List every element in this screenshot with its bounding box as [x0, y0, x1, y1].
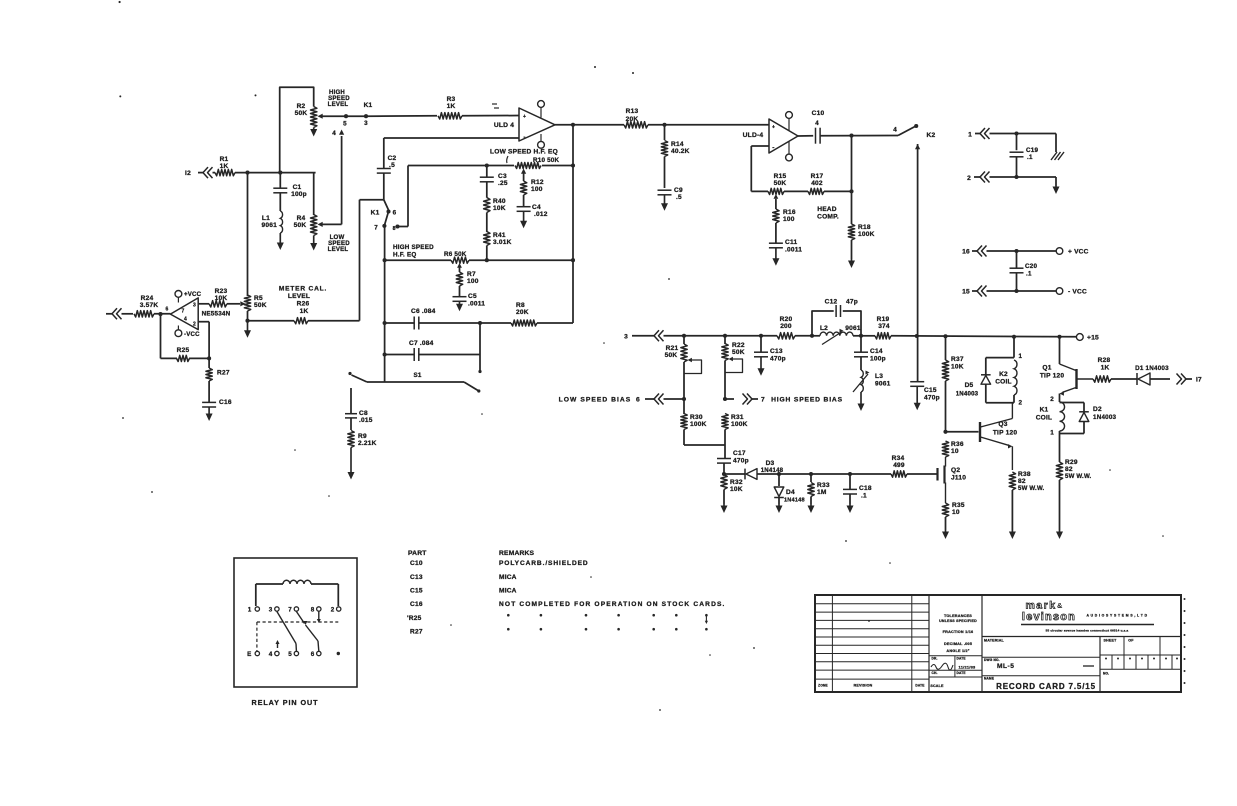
- resistor R17: [808, 188, 824, 194]
- svg-text:R33: R33: [817, 482, 830, 489]
- supply circle +VCC U3: [175, 291, 182, 298]
- svg-text:PART: PART: [408, 550, 427, 557]
- svg-text:3.57K: 3.57K: [140, 302, 159, 309]
- svg-text:C3: C3: [498, 173, 507, 180]
- svg-text:1: 1: [1050, 430, 1054, 437]
- svg-text:374: 374: [878, 323, 890, 330]
- node Q3 base: [943, 430, 947, 434]
- node C20 top: [1014, 249, 1018, 253]
- revision table rules: [815, 603, 929, 605]
- svg-text:C17: C17: [733, 450, 746, 457]
- transistor Q2 J110 (JFET): [936, 468, 938, 481]
- transistor Q1 TIP120: [1059, 337, 1061, 364]
- ground below C16: [208, 407, 210, 416]
- svg-text:C2: C2: [388, 155, 397, 162]
- svg-text:SCALE: SCALE: [930, 684, 944, 688]
- svg-text:402: 402: [811, 180, 823, 187]
- op-amp U1 ULD-4: [519, 108, 555, 141]
- ground below C5: [459, 301, 461, 306]
- svg-text:L1: L1: [262, 215, 270, 222]
- capacitor C12 branch: [812, 311, 834, 336]
- svg-text:A U D I O S Y S T E M S , L T: A U D I O S Y S T E M S , L T D: [1087, 614, 1148, 618]
- svg-text:I2: I2: [185, 170, 191, 177]
- svg-text:.1: .1: [1026, 271, 1032, 278]
- svg-text:R10 50K: R10 50K: [533, 157, 560, 164]
- svg-text:DWG NO.: DWG NO.: [984, 658, 1000, 662]
- svg-text:COIL: COIL: [995, 379, 1012, 386]
- svg-text:7: 7: [374, 225, 378, 232]
- wiper of R10 to R12: [521, 169, 526, 174]
- svg-text:K1: K1: [1040, 407, 1049, 414]
- resistor R26: [294, 318, 308, 324]
- ground below C13: [760, 357, 762, 371]
- svg-text:D4: D4: [786, 489, 795, 496]
- svg-text:NE5534N: NE5534N: [202, 311, 231, 318]
- ground below C18: [849, 504, 851, 508]
- svg-text:499: 499: [893, 462, 905, 469]
- svg-text:R29: R29: [1065, 459, 1078, 466]
- diode D5 1N4003: [985, 358, 987, 375]
- parts list dot rows: [507, 614, 510, 617]
- capacitor C17: [717, 458, 731, 460]
- ground below R38: [1011, 530, 1013, 534]
- svg-text:20K: 20K: [626, 116, 639, 123]
- wire C6/R8 line: [385, 322, 415, 324]
- wire U1 inverting input: [384, 137, 519, 139]
- svg-text:C16: C16: [219, 399, 232, 406]
- op-amp U3 NE5534 (points left): [170, 298, 198, 330]
- resistor R28: [1093, 376, 1111, 382]
- node C18 branch: [848, 472, 852, 476]
- svg-text:1K: 1K: [300, 308, 309, 315]
- svg-text:1: 1: [968, 132, 972, 139]
- svg-text:DR.: DR.: [932, 657, 938, 661]
- capacitor C5: [453, 296, 467, 298]
- node L2 right / C14 branch: [859, 334, 863, 338]
- wiper of R2: [318, 114, 323, 119]
- resistor R30: [683, 399, 685, 414]
- svg-text:LEVEL: LEVEL: [288, 293, 310, 300]
- svg-text:D1 1N4003: D1 1N4003: [1135, 365, 1169, 372]
- svg-text:9061: 9061: [845, 325, 861, 332]
- svg-text:5W W.W.: 5W W.W.: [1065, 473, 1092, 480]
- ground below L3: [860, 392, 862, 406]
- svg-text:R25: R25: [177, 347, 190, 354]
- resistor R32: [721, 475, 727, 490]
- wire R26 meter cal line: [248, 320, 295, 322]
- node R14 branch: [662, 123, 666, 127]
- node R33 branch: [809, 472, 813, 476]
- svg-text:470p: 470p: [733, 458, 749, 465]
- svg-text:9061: 9061: [262, 222, 278, 229]
- svg-text:R5: R5: [254, 295, 263, 302]
- resistor R13: [624, 122, 648, 128]
- svg-text:R19: R19: [877, 316, 890, 323]
- node C19 top: [1014, 131, 1018, 135]
- node A junction R1/R5: [245, 171, 249, 175]
- capacitor C2: [383, 138, 385, 168]
- svg-text:47p: 47p: [846, 299, 858, 306]
- svg-text:R32: R32: [730, 479, 743, 486]
- svg-text:470p: 470p: [924, 395, 940, 402]
- resistor R20: [777, 333, 795, 339]
- svg-text:R40: R40: [493, 198, 506, 205]
- title block outer border: [815, 595, 1181, 692]
- svg-text:5: 5: [343, 121, 347, 128]
- svg-text:OF: OF: [1128, 639, 1134, 643]
- ground below D4: [778, 504, 780, 508]
- svg-text:Q2: Q2: [951, 467, 960, 474]
- capacitor C15: [910, 381, 924, 383]
- svg-text:.25: .25: [498, 180, 508, 187]
- resistor R14: [664, 125, 666, 140]
- svg-text:R30: R30: [690, 414, 703, 421]
- svg-text:Q1: Q1: [1042, 365, 1051, 372]
- svg-text:.012: .012: [534, 211, 548, 218]
- node R27 top: [207, 356, 211, 360]
- resistor R9: [348, 431, 354, 448]
- svg-text:100p: 100p: [870, 356, 886, 363]
- wire contact3 to R3: [366, 115, 437, 117]
- wire R22 to node 7: [724, 361, 726, 400]
- svg-text:100K: 100K: [690, 421, 707, 428]
- svg-text:COIL: COIL: [1036, 415, 1053, 422]
- svg-text:R3: R3: [447, 96, 456, 103]
- svg-text:470p: 470p: [770, 356, 786, 363]
- svg-text:REVISION: REVISION: [854, 684, 873, 688]
- drawing number ML-5: [982, 656, 1100, 658]
- node C7 junction: [478, 321, 482, 325]
- svg-text:82: 82: [1018, 478, 1026, 485]
- switch K1 contacts 5-3: [344, 114, 348, 118]
- svg-text:I7: I7: [1196, 377, 1202, 384]
- svg-text:100: 100: [531, 186, 543, 193]
- resistor R8: [511, 320, 537, 326]
- resistor R27: [208, 358, 210, 368]
- svg-text:55 circular avenue hamden conn: 55 circular avenue hamden connecticut 06…: [1046, 629, 1129, 633]
- svg-text:10K: 10K: [493, 205, 506, 212]
- ground below R2: [313, 128, 315, 132]
- svg-text:- VCC: - VCC: [1068, 289, 1087, 296]
- svg-text:6: 6: [166, 307, 169, 313]
- svg-text:TOLERANCES: TOLERANCES: [944, 614, 972, 618]
- svg-text:DECIMAL .005: DECIMAL .005: [944, 642, 972, 646]
- wiper of R15 to R16: [774, 194, 779, 199]
- ground pin2: [1055, 177, 1057, 186]
- svg-text:ANGLE 1/2°: ANGLE 1/2°: [946, 649, 969, 653]
- ground below L1: [279, 233, 281, 245]
- svg-text:R41: R41: [493, 232, 506, 239]
- svg-text:10K: 10K: [951, 364, 964, 371]
- svg-text:3: 3: [364, 120, 368, 127]
- resistor R24: [122, 313, 134, 315]
- wire Q1 emitter to K1 coil: [1059, 394, 1061, 403]
- svg-text:+15: +15: [1087, 335, 1099, 342]
- svg-text:RECORD CARD 7.5/15: RECORD CARD 7.5/15: [996, 682, 1096, 691]
- resistor R15 (pot): [768, 188, 784, 194]
- wire U1 output: [555, 124, 624, 126]
- svg-text:C14: C14: [870, 348, 883, 355]
- svg-text:100K: 100K: [731, 421, 748, 428]
- svg-text:.5: .5: [389, 162, 395, 169]
- wiper arrow into R5: [240, 301, 245, 306]
- svg-text:7: 7: [288, 607, 292, 614]
- svg-text:mark: mark: [1025, 600, 1056, 612]
- ground below R9: [350, 448, 352, 475]
- svg-text:R2: R2: [297, 103, 306, 110]
- svg-text:TIP 120: TIP 120: [993, 430, 1018, 437]
- capacitor C19: [1010, 151, 1024, 153]
- balance pin circles U2: [786, 112, 793, 119]
- svg-text:6: 6: [311, 651, 315, 658]
- svg-text:S1: S1: [413, 372, 421, 379]
- svg-text:20K: 20K: [516, 309, 529, 316]
- svg-text:R12: R12: [531, 179, 544, 186]
- svg-text:D5: D5: [965, 382, 974, 389]
- svg-text:C16: C16: [410, 601, 423, 608]
- svg-text:C11: C11: [785, 239, 797, 246]
- svg-text:1N4003: 1N4003: [956, 391, 979, 398]
- svg-text:J110: J110: [951, 475, 966, 482]
- wire C10 to K2: [820, 135, 898, 137]
- svg-text:1M: 1M: [817, 489, 827, 496]
- svg-text:K1: K1: [371, 210, 380, 217]
- ground below C15: [916, 386, 918, 405]
- svg-text:FRACTION 1/16: FRACTION 1/16: [943, 630, 974, 634]
- svg-text:ZONE: ZONE: [818, 684, 828, 688]
- svg-text:10K: 10K: [730, 486, 743, 493]
- diode D4 1N4148: [778, 474, 780, 486]
- svg-text:9061: 9061: [875, 381, 891, 388]
- wire D3 line: [724, 473, 745, 475]
- resistor R16: [773, 209, 779, 223]
- svg-text:-: -: [523, 135, 525, 141]
- capacitor C9: [658, 189, 672, 191]
- resistor R2 (pot): [311, 107, 317, 128]
- ground below R5: [247, 321, 249, 333]
- svg-text:2: 2: [1050, 396, 1054, 403]
- svg-text:R7: R7: [467, 271, 476, 278]
- ground below C9: [664, 195, 666, 206]
- sheet of row: [1099, 637, 1101, 693]
- wire U2 output to C10: [798, 135, 813, 137]
- resistor R21 (pot/rheostat): [683, 336, 685, 344]
- svg-text:R21: R21: [666, 345, 679, 352]
- svg-text:C12: C12: [825, 299, 838, 306]
- svg-text:8: 8: [311, 607, 315, 614]
- svg-text:R4: R4: [297, 215, 306, 222]
- svg-text:.1: .1: [1027, 154, 1033, 161]
- svg-text:2.21K: 2.21K: [358, 440, 377, 447]
- svg-text:.015: .015: [359, 417, 373, 424]
- perforation dots right edge: [1184, 598, 1186, 600]
- svg-text:16: 16: [962, 249, 970, 256]
- svg-text:50K: 50K: [665, 352, 678, 359]
- svg-text:R1: R1: [220, 156, 229, 163]
- svg-text:K2: K2: [999, 371, 1008, 378]
- svg-text:C4: C4: [532, 204, 541, 211]
- switch S1: [348, 372, 351, 375]
- svg-text:3: 3: [193, 303, 196, 309]
- svg-text:C8: C8: [359, 410, 368, 417]
- svg-text:1: 1: [1019, 353, 1023, 360]
- wiper of R6 to R7: [457, 263, 462, 268]
- svg-text:10: 10: [951, 448, 959, 455]
- svg-text:C19: C19: [1026, 147, 1038, 154]
- svg-text:HIGH SPEED: HIGH SPEED: [393, 244, 434, 251]
- svg-text:8: 8: [393, 226, 396, 232]
- svg-text:E: E: [247, 651, 251, 658]
- svg-text:100K: 100K: [858, 231, 875, 238]
- resistor R36: [942, 441, 948, 457]
- node output vertical: [571, 123, 575, 127]
- resistor R37: [945, 336, 947, 360]
- node D4 branch: [777, 472, 781, 476]
- capacitor C13: [760, 336, 762, 352]
- capacitor C20: [1010, 267, 1024, 269]
- capacitor C18: [849, 474, 851, 489]
- svg-text:82: 82: [1065, 466, 1073, 473]
- svg-text:6: 6: [393, 210, 397, 217]
- resistor R33: [810, 474, 812, 482]
- svg-text:5: 5: [288, 651, 292, 658]
- inductor L2 (adjustable): [812, 335, 820, 337]
- diode D2 1N4003: [1060, 402, 1085, 404]
- ground below R33: [810, 504, 812, 508]
- svg-text:6: 6: [636, 397, 640, 404]
- ground below C4: [523, 211, 525, 223]
- svg-text:-VCC: -VCC: [184, 331, 200, 338]
- svg-text:&: &: [1057, 601, 1063, 610]
- svg-text:2: 2: [967, 175, 971, 182]
- svg-text:LEVEL: LEVEL: [328, 246, 349, 253]
- svg-text:2: 2: [193, 322, 196, 328]
- svg-text:D2: D2: [1093, 406, 1102, 413]
- chassis ground pin1: [1055, 134, 1057, 153]
- node C13 branch: [759, 334, 763, 338]
- svg-text:DATE: DATE: [915, 684, 924, 688]
- svg-text:NAME: NAME: [984, 676, 994, 680]
- coil K2: [1014, 360, 1017, 395]
- svg-text:R13: R13: [626, 108, 639, 115]
- svg-text:NO.: NO.: [1103, 672, 1109, 676]
- relay contact arms: [277, 612, 296, 644]
- resistor R35: [942, 503, 948, 517]
- svg-text:10K: 10K: [215, 295, 228, 302]
- resistor R31: [722, 414, 728, 430]
- svg-text:C1: C1: [293, 184, 302, 191]
- resistor R40: [484, 198, 490, 213]
- svg-text:.0011: .0011: [785, 247, 802, 254]
- svg-text:C20: C20: [1025, 263, 1037, 270]
- svg-text:10: 10: [952, 509, 960, 516]
- svg-text:3: 3: [269, 607, 273, 614]
- wire meter-cal node to K1 pin 6: [360, 199, 384, 201]
- svg-text:R36: R36: [951, 441, 964, 448]
- svg-text:3.01K: 3.01K: [493, 239, 512, 246]
- ground below R4: [313, 236, 315, 246]
- capacitor C10: [815, 128, 817, 144]
- svg-text:C5: C5: [468, 293, 477, 300]
- wire R2 top loop: [280, 87, 314, 172]
- svg-text:2: 2: [331, 607, 335, 614]
- node C3 branch: [485, 163, 489, 167]
- svg-text:50K: 50K: [254, 302, 267, 309]
- capacitor C14: [854, 351, 868, 353]
- svg-text:levinson: levinson: [1022, 611, 1076, 623]
- svg-text:R26: R26: [297, 301, 310, 308]
- svg-text:1N4003: 1N4003: [1093, 414, 1117, 421]
- svg-text:D3: D3: [766, 460, 775, 467]
- svg-text:R37: R37: [951, 356, 964, 363]
- signature rows: [929, 655, 982, 657]
- svg-text:C13: C13: [770, 348, 783, 355]
- node Q1 collector: [1057, 335, 1061, 339]
- sheet tick boxes: [1100, 654, 1181, 656]
- wire meter output: [106, 313, 112, 315]
- svg-text:+ VCC: + VCC: [1068, 249, 1089, 256]
- svg-text:ULD 4: ULD 4: [494, 122, 514, 129]
- svg-text:ULD-4: ULD-4: [743, 132, 764, 139]
- node L2 left: [810, 334, 814, 338]
- svg-text:R27: R27: [410, 629, 423, 636]
- svg-text:CH.: CH.: [932, 671, 938, 675]
- junction dots EQ verticals: [383, 258, 387, 262]
- op-amp U2 ULD-4: [769, 119, 798, 153]
- wire C7 line: [385, 354, 415, 356]
- connector chevron meter out: [112, 308, 117, 319]
- resistor R25: [177, 355, 190, 361]
- svg-text:C10: C10: [812, 110, 825, 117]
- resistor R12: [520, 181, 526, 195]
- terminal +VCC: [1056, 248, 1063, 255]
- resistor R10 (pot): [515, 163, 541, 169]
- svg-text:REMARKS: REMARKS: [499, 550, 535, 557]
- resistor R41: [484, 232, 490, 246]
- svg-text:R34: R34: [892, 455, 905, 462]
- material row: [982, 636, 1181, 638]
- svg-text:4: 4: [815, 120, 819, 127]
- wire R15/R17 feedback: [751, 190, 768, 192]
- svg-text:MATERIAL: MATERIAL: [984, 639, 1005, 643]
- capacitor C4: [517, 206, 531, 208]
- node R22 top: [723, 334, 727, 338]
- svg-text:4: 4: [893, 127, 897, 134]
- terminal +15: [1076, 334, 1083, 341]
- svg-text:SHEET: SHEET: [1104, 639, 1118, 643]
- wire U2 inverting input: [751, 145, 769, 147]
- svg-text:+VCC: +VCC: [184, 291, 202, 298]
- feedback loop R25: [158, 312, 162, 316]
- svg-text:C6 .084: C6 .084: [411, 308, 436, 315]
- svg-text:K1: K1: [364, 102, 373, 109]
- ground below C11: [775, 248, 777, 260]
- resistor R3: [438, 113, 462, 119]
- svg-text:+: +: [523, 114, 526, 120]
- svg-text:2: 2: [1019, 400, 1023, 407]
- noise specks near U1: [492, 103, 497, 105]
- supply circle -VCC U3: [175, 330, 182, 337]
- wire K2 throw down to C15: [915, 144, 920, 149]
- capacitor C7: [413, 348, 415, 361]
- transistor Q3 TIP120: [979, 422, 981, 442]
- svg-text:R16: R16: [783, 209, 796, 216]
- wire bias main line: [684, 335, 777, 337]
- svg-text:ML-5: ML-5: [997, 663, 1014, 670]
- svg-text:R15: R15: [774, 173, 787, 180]
- svg-text:4: 4: [184, 317, 187, 323]
- tolerance box text: [981, 595, 983, 692]
